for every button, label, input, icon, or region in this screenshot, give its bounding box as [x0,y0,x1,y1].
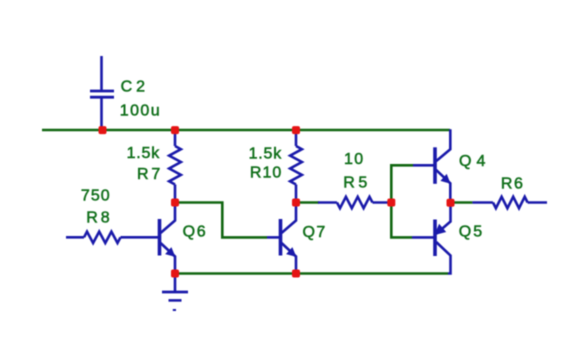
resistor R6 [472,197,547,208]
junction rail/R7 [171,126,179,134]
resistor R8 [66,232,158,243]
node Q7 emitter [292,270,300,278]
wire: Q6 collector to Q7 base [175,203,267,238]
node Q6 collector [171,199,179,207]
junction rail/R10 [292,126,300,134]
wire: output node to R6 [451,201,473,204]
svg-text:1.5k: 1.5k [127,145,161,162]
wire: Q7 collector to R5 [296,201,319,204]
transistor Q5 (PNP) [412,203,451,274]
resistor R10 [290,130,302,203]
wire: top supply rail [42,129,450,132]
node Q7 collector [292,199,300,207]
node R5/base net [387,199,395,207]
wire: base net vertical (R5 node to Q4/Q5 bases) [391,165,413,237]
svg-text:R5: R5 [343,175,370,192]
wire: bottom rail (Q6/Q7 emitters to Q5 collector) [175,272,448,275]
resistor R5 [318,197,391,208]
svg-text:C2: C2 [121,79,149,96]
transistor Q6 (NPN) [158,203,176,274]
svg-text:R10: R10 [250,165,282,182]
node Q6 emitter/ground [171,270,179,278]
capacitor C2 [90,56,114,130]
svg-text:Q4: Q4 [459,153,490,170]
svg-text:R8: R8 [86,210,112,227]
transistor Q7 (NPN) [267,203,296,274]
svg-text:Q5: Q5 [459,224,484,241]
svg-text:1.5k: 1.5k [249,146,283,163]
ground symbol [162,274,188,311]
junction rail/C2 [99,126,107,134]
resistor R7 [169,130,181,203]
svg-text:750: 750 [81,188,111,205]
transistor Q4 (NPN) [413,129,451,202]
node output (Q4/Q5 emitters) [447,199,455,207]
svg-text:R7: R7 [137,166,163,183]
svg-text:Q6: Q6 [183,223,208,240]
svg-text:Q7: Q7 [303,224,327,241]
svg-text:100u: 100u [120,103,161,120]
svg-text:10: 10 [344,151,365,168]
svg-text:R6: R6 [501,176,525,193]
